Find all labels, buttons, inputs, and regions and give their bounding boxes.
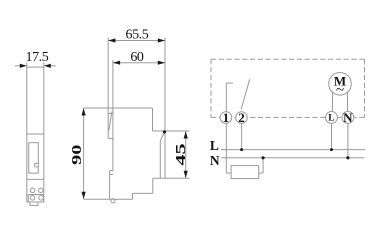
svg-text:45: 45 <box>173 143 188 165</box>
svg-text:L: L <box>328 113 334 123</box>
svg-text:2: 2 <box>238 110 245 125</box>
svg-text:17.5: 17.5 <box>26 50 49 65</box>
svg-text:~: ~ <box>336 83 344 99</box>
svg-text:60: 60 <box>130 50 144 65</box>
svg-text:N: N <box>343 110 353 125</box>
svg-text:L: L <box>210 138 219 153</box>
svg-text:90: 90 <box>69 145 84 165</box>
svg-text:1: 1 <box>223 110 230 125</box>
svg-text:N: N <box>210 153 220 168</box>
svg-text:65.5: 65.5 <box>126 28 149 43</box>
